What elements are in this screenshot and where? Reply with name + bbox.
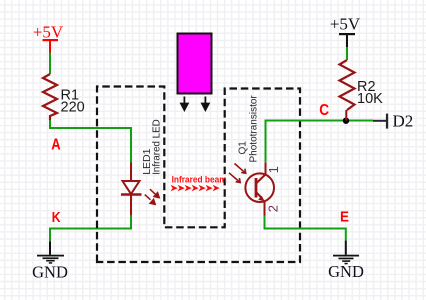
ground left xyxy=(32,242,68,282)
svg-text:2: 2 xyxy=(266,205,281,212)
wire R2 to +5V right xyxy=(346,47,348,60)
resistor R1 xyxy=(43,74,85,120)
svg-text:E: E xyxy=(340,209,349,226)
wire LED1 cathode to node K xyxy=(50,215,131,242)
sensor housing dashed outline xyxy=(97,87,300,263)
junction dot xyxy=(343,118,349,124)
terminal D2 xyxy=(373,112,413,131)
svg-text:220: 220 xyxy=(61,100,85,116)
infrared beam arrows xyxy=(171,185,220,192)
wire R1 to LED1 anode xyxy=(50,120,131,163)
phototransistor Q1 symbol xyxy=(229,162,281,215)
svg-text:Phototransistor: Phototransistor xyxy=(249,95,260,163)
svg-text:C: C xyxy=(319,102,329,119)
svg-text:Infrared LED: Infrared LED xyxy=(152,119,163,175)
svg-text:A: A xyxy=(51,137,61,154)
LED1 emission arrows xyxy=(145,189,159,204)
object (magenta blocker) xyxy=(178,34,212,94)
svg-text:GND: GND xyxy=(328,262,364,281)
power terminal +5V right xyxy=(330,15,361,47)
power terminal +5V left xyxy=(33,22,64,52)
LED LED1 xyxy=(121,163,159,216)
wire junction to terminal D2 xyxy=(346,120,373,122)
ground right xyxy=(328,241,364,281)
svg-text:+5V: +5V xyxy=(330,15,361,34)
svg-text:D2: D2 xyxy=(393,112,414,131)
svg-text:GND: GND xyxy=(32,262,68,281)
resistor R2 xyxy=(340,60,384,121)
svg-text:Infrared beam: Infrared beam xyxy=(172,175,227,185)
svg-text:+5V: +5V xyxy=(33,22,64,41)
wire +5V to R1 xyxy=(49,53,51,75)
object motion arrows xyxy=(181,97,209,111)
wire emitter to node E xyxy=(265,216,346,241)
svg-text:10K: 10K xyxy=(357,91,383,107)
svg-text:K: K xyxy=(52,209,61,226)
svg-text:Q1: Q1 xyxy=(238,141,249,155)
incoming light arrows xyxy=(229,164,246,183)
svg-text:1: 1 xyxy=(266,166,281,173)
wire collector to node C xyxy=(266,121,347,163)
